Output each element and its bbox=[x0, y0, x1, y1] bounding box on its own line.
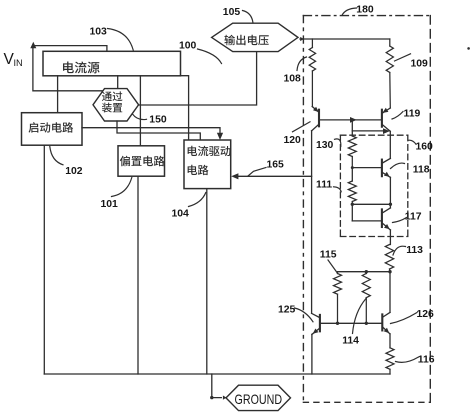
label 120 with leader bbox=[284, 122, 311, 146]
wire base Q117 bbox=[352, 220, 382, 222]
wire startup to current-driver with arrow bbox=[82, 128, 223, 140]
wire to GROUND with arrow bbox=[210, 374, 226, 400]
svg-text:117: 117 bbox=[405, 211, 422, 222]
hexagon GROUND node bbox=[226, 385, 291, 410]
resistor R115 bbox=[334, 272, 342, 325]
wire current-source to current-driver bbox=[181, 76, 189, 140]
box U102 startup circuit 启动电路 bbox=[22, 113, 83, 146]
svg-text:113: 113 bbox=[406, 245, 423, 256]
wire pass-device to output-voltage node bbox=[139, 52, 257, 105]
svg-text:109: 109 bbox=[411, 58, 429, 69]
label 119 with leader bbox=[392, 108, 420, 119]
resistor R111 bbox=[348, 181, 356, 204]
label 103 with leader bbox=[90, 27, 134, 51]
wire ground bus bbox=[44, 373, 390, 375]
wire Q126 emitter to R116 bbox=[389, 334, 391, 348]
label 115 with leader bbox=[320, 250, 337, 273]
label 116 with leader bbox=[396, 354, 435, 365]
label 125 with leader bbox=[278, 304, 313, 322]
wire base to collector branch with arrow bbox=[352, 120, 390, 136]
transistor Q126 NPN bbox=[382, 312, 390, 334]
svg-text:125: 125 bbox=[278, 304, 296, 315]
label V_IN bbox=[4, 51, 23, 68]
label 109 with leader bbox=[395, 54, 429, 70]
resistor R108 bbox=[309, 39, 315, 107]
label 180 with leader bbox=[342, 5, 374, 16]
wire node junction line bbox=[351, 203, 393, 221]
label 150 with leader bbox=[132, 114, 167, 126]
svg-text:160: 160 bbox=[416, 141, 434, 152]
wire Q118 emitter to Q117 collector bbox=[389, 177, 391, 208]
label 104 with leader bbox=[172, 193, 206, 220]
resistor R109 bbox=[386, 39, 393, 108]
hexagon 105 output voltage 输出电压 bbox=[212, 23, 298, 51]
box U104 current drive circuit 电流驱动电路 bbox=[184, 140, 231, 189]
svg-text:102: 102 bbox=[65, 166, 83, 177]
wire left rail collector Q120 bbox=[311, 131, 313, 314]
stray mark bbox=[467, 47, 470, 50]
svg-text:180: 180 bbox=[356, 5, 374, 16]
wire V_IN input with arrow bbox=[30, 42, 107, 91]
label 108 with leader bbox=[284, 57, 307, 84]
svg-text:104: 104 bbox=[172, 209, 190, 220]
transistor Q125 NPN bbox=[312, 313, 320, 334]
svg-text:126: 126 bbox=[417, 309, 435, 320]
wire right rail Q119 to Q118 bbox=[389, 131, 391, 158]
svg-text:115: 115 bbox=[320, 250, 337, 261]
label 117 with leader bbox=[393, 211, 422, 222]
svg-text:111: 111 bbox=[316, 179, 332, 190]
hexagon 150 pass device 通过装置 bbox=[93, 89, 139, 121]
wire Q117 emitter to R113 bbox=[389, 230, 391, 245]
wire base line Q125-Q126 bbox=[320, 322, 382, 324]
resistor R113 bbox=[385, 245, 393, 272]
svg-text:105: 105 bbox=[223, 7, 241, 18]
label 113 with leader bbox=[393, 245, 423, 256]
svg-text:165: 165 bbox=[267, 160, 285, 171]
wire Q125 emitter to bus bbox=[311, 334, 313, 374]
resistor R114 bbox=[362, 272, 370, 325]
svg-text:IN: IN bbox=[14, 58, 23, 68]
label 114 with leader bbox=[342, 299, 366, 347]
label 100 with leader bbox=[179, 40, 222, 63]
label 130 with leader bbox=[316, 139, 341, 151]
svg-text:150: 150 bbox=[149, 115, 167, 126]
transistor Q119 PNP bbox=[382, 108, 390, 132]
label 118 with leader bbox=[391, 163, 430, 175]
box U101 bias circuit 偏置电路 bbox=[118, 146, 165, 176]
resistor R116 bbox=[386, 348, 394, 374]
wire base line Q120-Q119 with junction arrow bbox=[319, 117, 382, 123]
wire startup to ground bus bbox=[43, 145, 45, 374]
wire output-voltage to resistor network with arrow bbox=[300, 37, 390, 41]
svg-text:101: 101 bbox=[101, 199, 119, 210]
svg-text:108: 108 bbox=[284, 73, 302, 84]
label 160 with leader bbox=[408, 140, 433, 152]
svg-text:100: 100 bbox=[179, 40, 197, 51]
svg-text:119: 119 bbox=[404, 108, 421, 119]
dashed box 160 inner network bbox=[340, 135, 407, 236]
transistor Q117 NPN bbox=[382, 208, 391, 230]
label 165 with leader bbox=[248, 160, 284, 176]
wire bias to ground bus bbox=[137, 176, 139, 374]
svg-text:118: 118 bbox=[413, 164, 430, 175]
dashed box 180 voltage divider network bbox=[303, 16, 430, 403]
label 126 with leader bbox=[391, 309, 435, 323]
wire current-source to pass-device bbox=[117, 76, 119, 89]
box U103 current source 电流源 bbox=[43, 51, 181, 76]
label 101 with leader bbox=[101, 178, 132, 210]
wire current-source to startup bbox=[57, 76, 59, 113]
svg-text:116: 116 bbox=[418, 354, 435, 365]
svg-text:130: 130 bbox=[316, 140, 334, 151]
label 105 with leader bbox=[223, 7, 253, 23]
label 111 with leader bbox=[316, 179, 341, 192]
transistor Q120 PNP bbox=[312, 107, 319, 131]
wire node line R115 R114 R113 bbox=[338, 270, 392, 273]
wire current-source to bias bbox=[139, 76, 141, 146]
label 102 with leader bbox=[50, 147, 83, 177]
wire pass-device to current-driver bbox=[117, 121, 200, 140]
wire node to base Q118 bbox=[351, 166, 382, 181]
svg-text:GROUND: GROUND bbox=[235, 392, 283, 407]
wire R113 node to Q126 collector bbox=[389, 272, 391, 313]
wire current-driver to ground bus bbox=[206, 189, 208, 374]
resistor R130 bbox=[348, 136, 356, 168]
svg-text:114: 114 bbox=[342, 335, 359, 346]
wire 165 current feedback with arrow bbox=[231, 173, 311, 179]
svg-text:120: 120 bbox=[284, 135, 302, 146]
svg-text:103: 103 bbox=[90, 27, 108, 38]
transistor Q118 NPN bbox=[382, 158, 391, 177]
